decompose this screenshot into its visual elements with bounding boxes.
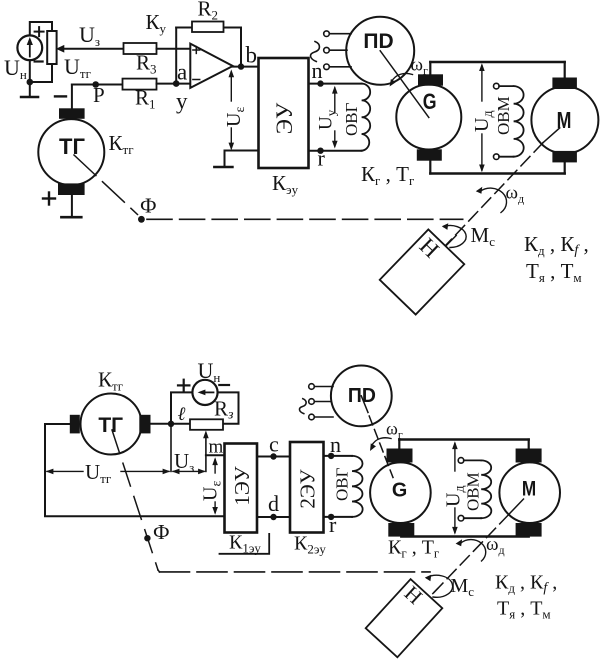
prime mover ПД circle [346, 17, 414, 85]
Uу dimension arrow [332, 86, 338, 149]
ТГ bottom brush [58, 183, 85, 195]
minus sign of source [35, 60, 43, 62]
ПД terminal 3 (bottom) [309, 414, 333, 420]
svg-text:ℓ: ℓ [178, 404, 186, 425]
svg-text:y: y [176, 89, 188, 114]
load box (bottom) [366, 578, 444, 658]
svg-text:ПD: ПD [363, 30, 393, 53]
rotation arrow ωг [392, 73, 413, 81]
vertical wire ℓ down to Uз dimension [170, 424, 172, 472]
М brush stubs [564, 62, 566, 174]
svg-text:G: G [392, 478, 407, 501]
wire ТГ right to node ℓ and Rз [151, 423, 191, 425]
wire R2 down to node b [240, 28, 242, 67]
prime mover ПД circle (bottom) [331, 366, 392, 427]
svg-text:2ЭУ: 2ЭУ [296, 469, 320, 508]
wire m to 1ЭУ [206, 454, 225, 456]
wire r to ОВГ [309, 150, 362, 152]
ОВМ terminal bottom [494, 154, 514, 160]
node a [173, 80, 180, 87]
op-amp + input mark [193, 47, 200, 54]
wire ЭУ lower input to ground [225, 151, 259, 167]
svg-text:ОВГ: ОВГ [333, 467, 352, 501]
Uз dimension arrow [172, 469, 206, 475]
ПД terminal 1 (bottom) [309, 384, 333, 390]
shaft М to load (bottom, solid) [509, 499, 524, 515]
svg-text:М: М [522, 476, 536, 500]
wire Uз to R3 [63, 48, 124, 50]
svg-text:ТГ: ТГ [59, 134, 85, 159]
resistor Rз [190, 419, 223, 430]
voltage source Uн (bottom) [192, 380, 217, 405]
wiper wire down [205, 437, 207, 471]
generator G circle (bottom) [370, 462, 431, 523]
label ОВМ (rotated, bottom) [464, 472, 483, 511]
М bottom brush (bottom) [516, 523, 542, 537]
svg-text:Тя , Тм: Тя , Тм [526, 259, 582, 285]
wire ТГ left to bottom rail [45, 424, 225, 516]
field winding ОВМ (bottom) [481, 460, 491, 518]
wiper arrow of Rз [203, 430, 209, 438]
amplifier block 1ЭУ [225, 444, 258, 533]
svg-text:Ф: Ф [153, 520, 170, 544]
ПД terminal 3 [324, 64, 351, 70]
ОВМ terminal bottom (bottom) [458, 515, 481, 521]
plus sign (bottom source) [178, 380, 189, 391]
plus sign at ТГ [43, 193, 55, 205]
ПД terminal 2 (bottom) [309, 399, 331, 405]
shaft ПД to G (bottom) [361, 396, 368, 413]
armature bottom rail G-M [430, 172, 564, 174]
wire P down to ТГ [71, 85, 73, 109]
svg-text:ТГ: ТГ [98, 414, 123, 437]
wire c between blocks [257, 456, 290, 458]
node n [317, 80, 323, 86]
feedback wire from node a up [175, 28, 177, 84]
wire R3 to op-amp + input [157, 48, 191, 50]
G brush stubs [429, 62, 431, 174]
ground (ЭУ input) [214, 166, 232, 169]
ОВМ terminal top (bottom) [458, 458, 481, 464]
AC tilde symbol (bottom) [299, 399, 306, 414]
svg-text:c: c [269, 432, 279, 457]
wire n to ОВГ [309, 83, 362, 85]
ТГ top brush [59, 108, 85, 119]
node r [317, 148, 323, 154]
generator G circle [396, 85, 461, 150]
wiper arrow of potentiometer [57, 46, 64, 52]
node r (bottom) [328, 514, 334, 520]
wire ТГ bottom to ground [71, 195, 73, 217]
wire from node P to R1 [72, 84, 123, 86]
М bottom brush [552, 151, 577, 163]
label Uε (rotated) [223, 107, 248, 127]
Uд dimension arrow (bottom) [452, 441, 458, 534]
wire R1 to node a [157, 83, 191, 85]
voltage source Uн (top) [17, 35, 42, 60]
shaft junction dot Ф (bottom) [144, 535, 150, 541]
label ОВМ (rotated) [494, 96, 513, 135]
G bottom brush (bottom) [388, 523, 414, 537]
minus sign (bottom source) [219, 384, 229, 386]
amplifier block 2ЭУ [290, 442, 324, 533]
ground (under source) [21, 96, 38, 99]
shaft М to load (dashed) [446, 143, 543, 245]
junction node [27, 79, 34, 86]
G stub to top rail (bottom) [398, 440, 400, 449]
potentiometer (setting divider) [47, 31, 56, 64]
node n (bottom) [328, 453, 334, 459]
wire n to ОВГ (bottom) [324, 455, 353, 457]
shaft М to load (bottom, dashed) [433, 515, 509, 594]
tachogenerator ТГ circle [38, 119, 104, 185]
minus sign at ТГ [55, 95, 66, 97]
shaft junction dot Ф [138, 216, 145, 223]
armature bottom rail (bottom) [401, 535, 528, 537]
label 1ЭУ (rotated) [230, 466, 254, 505]
G bottom brush [417, 149, 442, 160]
svg-text:Кд , Кf ,: Кд , Кf , [495, 572, 557, 596]
label ЭУ (rotated) [272, 102, 297, 134]
ПД terminal 2 [324, 47, 347, 53]
amplifier block ЭУ [259, 58, 309, 168]
field winding ОВМ (motor) [514, 86, 524, 157]
armature top rail G-M [430, 61, 564, 63]
wire source left to ℓ [171, 392, 192, 420]
ground (under ТГ) [61, 216, 81, 219]
Uε arrow (top) [229, 69, 235, 150]
label Uу (rotated) [316, 109, 339, 130]
label Uд (rotated, top) [471, 110, 496, 132]
ПД terminal 1 [324, 31, 351, 37]
svg-text:n: n [330, 432, 341, 457]
node P [92, 81, 99, 88]
svg-text:G: G [423, 89, 437, 114]
node ℓ [168, 421, 174, 427]
shaft М to load (solid part) [543, 128, 560, 143]
svg-text:ЭУ: ЭУ [272, 102, 297, 134]
node b [238, 63, 244, 69]
node d [270, 514, 276, 520]
svg-text:Кг , Тг: Кг , Тг [361, 162, 414, 188]
feedback rail to R2 [176, 27, 241, 29]
field winding ОВГ (generator) [362, 84, 371, 151]
ТГ right brush [139, 415, 150, 434]
ТГ left brush [70, 415, 80, 434]
rotation arrow ωд (top) [480, 188, 507, 212]
label Uд (rotated, bottom) [443, 485, 468, 507]
motor М circle [531, 87, 598, 154]
М stub to top rail (bottom) [528, 440, 530, 449]
svg-text:ОВГ: ОВГ [342, 102, 361, 136]
load box (top) [380, 229, 465, 314]
resistor R1 [123, 79, 157, 90]
shaft ТГ (dashed) [74, 155, 138, 215]
resistor R2 [192, 22, 224, 33]
mechanical coupling dashed line (top) [147, 218, 463, 220]
svg-text:ОВМ: ОВМ [464, 472, 483, 511]
G top brush (bottom) [387, 449, 413, 463]
shaft ПД to G [380, 51, 429, 118]
Uд dimension arrow (top) [479, 63, 485, 172]
tachogenerator ТГ circle (bottom) [81, 394, 142, 455]
torque arrow Мс (bottom) [427, 575, 453, 597]
label ОВГ (rotated) [342, 102, 361, 136]
svg-text:m: m [209, 437, 224, 458]
wire source top to potentiometer [30, 22, 52, 35]
rotation arrow ωд (bottom) [461, 540, 486, 561]
svg-text:Кд , Кf ,: Кд , Кf , [524, 232, 589, 258]
М top brush (bottom) [516, 449, 542, 463]
resistor R3 [124, 43, 157, 54]
bracket of К1эу [220, 534, 270, 554]
svg-text:r: r [318, 146, 326, 171]
wire op-amp output to ЭУ [233, 66, 259, 68]
svg-text:a: a [177, 60, 187, 85]
М top brush [552, 78, 577, 90]
svg-text:r: r [329, 512, 337, 537]
wire source bottom / pot bottom [30, 60, 52, 96]
svg-text:Р: Р [93, 83, 105, 107]
ОВМ terminal top [494, 83, 514, 89]
wire r to ОВГ (bottom) [324, 516, 353, 518]
label 2ЭУ (rotated) [296, 469, 320, 508]
label Uε (rotated, bottom) [200, 481, 225, 501]
AC tilde symbol [311, 42, 320, 62]
svg-text:Ф: Ф [140, 194, 157, 218]
op-amp U1 triangle [190, 44, 233, 88]
svg-text:1ЭУ: 1ЭУ [230, 466, 254, 505]
Uε dimension arrow (bottom) [212, 457, 218, 515]
svg-text:ОВМ: ОВМ [494, 96, 513, 135]
op-amp - input mark [193, 79, 200, 81]
wire d between blocks [257, 516, 290, 518]
svg-text:b: b [246, 43, 258, 68]
node c [270, 453, 276, 459]
armature top rail (bottom) [399, 438, 528, 440]
torque arrow Мс (top) [444, 226, 467, 248]
label ОВГ (rotated, bottom) [333, 467, 352, 501]
svg-text:d: d [268, 491, 279, 516]
plus sign of source [35, 27, 44, 36]
svg-text:Кг , Тг: Кг , Тг [388, 537, 439, 561]
wire source right to Rз [218, 392, 239, 423]
field winding ОВГ (bottom) [352, 456, 363, 517]
mechanical coupling dashed line (bottom) [158, 570, 160, 572]
Uтг dimension arrow [46, 469, 171, 475]
motor М circle (bottom) [499, 462, 560, 523]
shaft ТГ (dashed, bottom) [112, 430, 158, 570]
G top brush [418, 74, 443, 85]
rotation arrow ωг (bottom) [372, 438, 391, 446]
